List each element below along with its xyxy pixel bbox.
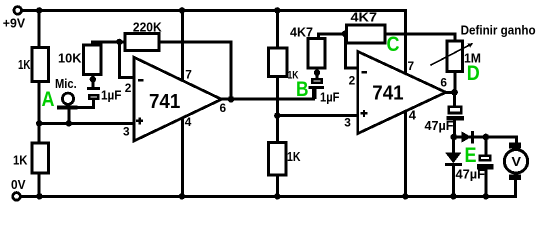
svg-text:741: 741 bbox=[149, 91, 180, 113]
junction U2 output node bbox=[451, 89, 458, 96]
svg-text:4: 4 bbox=[185, 115, 192, 129]
svg-text:A: A bbox=[42, 88, 55, 111]
svg-text:6: 6 bbox=[220, 101, 227, 115]
junction bottom rail left bbox=[36, 193, 42, 199]
wire voltmeter bottom lead bbox=[514, 178, 517, 198]
U1 inverting input minus bbox=[138, 79, 143, 82]
svg-text:0V: 0V bbox=[11, 177, 26, 192]
junction 4K7 to capacitor C2 bbox=[314, 70, 320, 76]
svg-text:Definir ganho: Definir ganho bbox=[461, 24, 536, 38]
junction bottom rail pin4 U1 bbox=[179, 193, 185, 199]
svg-text:1µF: 1µF bbox=[320, 89, 340, 104]
svg-text:1K: 1K bbox=[18, 57, 31, 72]
svg-text:Mic.: Mic. bbox=[55, 77, 77, 91]
svg-text:3: 3 bbox=[344, 115, 351, 129]
wire U2 output bbox=[446, 91, 455, 94]
svg-text:4K7: 4K7 bbox=[290, 24, 313, 39]
svg-text:7: 7 bbox=[185, 68, 192, 82]
junction pin7 U1 at rail bbox=[179, 7, 185, 13]
wire pot R9 bottom lead bbox=[453, 71, 456, 92]
wire left divider vertical bbox=[38, 10, 41, 196]
wire mic to capacitor C1 bbox=[68, 99, 93, 107]
wire 10K top lead to node bbox=[92, 42, 125, 46]
resistor R7 4K7 bbox=[308, 39, 325, 68]
junction node 220K left bbox=[116, 39, 122, 45]
diode D2 bbox=[445, 152, 462, 166]
resistor R2 1K bbox=[32, 143, 49, 173]
U2 non-inverting input plus bbox=[361, 110, 368, 117]
resistor R6 1K bbox=[269, 143, 286, 175]
resistor R5 1K bbox=[269, 48, 288, 76]
svg-text:4K7: 4K7 bbox=[351, 10, 378, 25]
junction mic to pin3 wire bbox=[66, 120, 72, 126]
wire pin7 U2 supply drop bbox=[404, 9, 407, 74]
wire pin3 U1 input bbox=[39, 122, 134, 125]
wire U1 output bbox=[222, 98, 315, 101]
junction rectifier right bbox=[482, 134, 489, 141]
svg-text:+9V: +9V bbox=[3, 17, 26, 31]
wire pin4 U2 ground drop bbox=[404, 112, 407, 197]
wire pin4 U1 ground drop bbox=[181, 118, 184, 197]
wire bottom 0V rail bbox=[21, 195, 516, 198]
svg-text:4: 4 bbox=[409, 108, 417, 123]
capacitor C4 47uF bbox=[477, 156, 494, 170]
junction 10K to capacitor C1 bbox=[90, 76, 96, 82]
diode D1 bbox=[462, 131, 474, 144]
svg-text:6: 6 bbox=[440, 76, 447, 90]
junction second divider at rail bbox=[274, 7, 280, 13]
wire 4K7 vertical top lead bbox=[318, 34, 347, 39]
U1 non-inverting input plus bbox=[136, 117, 143, 124]
junction bottom rail pin4 U2 bbox=[402, 193, 408, 199]
wire diode D2 cathode stem bbox=[452, 166, 455, 197]
svg-text:1K: 1K bbox=[13, 153, 28, 168]
svg-text:V: V bbox=[512, 154, 522, 169]
op-amp U1 bbox=[134, 57, 222, 141]
svg-text:741: 741 bbox=[372, 82, 403, 104]
resistor R4 220K bbox=[125, 34, 159, 51]
svg-text:E: E bbox=[465, 144, 477, 167]
svg-text:2: 2 bbox=[125, 81, 132, 95]
svg-text:47µF: 47µF bbox=[456, 166, 486, 181]
wire 10K bottom lead bbox=[91, 74, 94, 80]
wire node to pin2 U2 bbox=[345, 34, 358, 68]
junction bottom rail divider2 bbox=[274, 193, 280, 199]
svg-text:1µF: 1µF bbox=[101, 88, 122, 103]
resistor R8 4K7 bbox=[347, 25, 386, 43]
wire output node to capacitor C3 bbox=[453, 92, 456, 106]
junction bottom rail diode D2 bbox=[450, 193, 456, 199]
voltmeter M1 bbox=[504, 143, 527, 181]
wire capacitor C4 bottom stem bbox=[484, 169, 487, 197]
wire diode D2 anode stem bbox=[452, 137, 455, 153]
wire mic stem bbox=[67, 108, 70, 123]
wire voltmeter top lead bbox=[515, 136, 518, 147]
wire feedback 220K right lead bbox=[159, 42, 232, 99]
wire U1 output to capacitor C2 bbox=[313, 89, 315, 99]
svg-text:7: 7 bbox=[408, 59, 415, 73]
junction divider to pin3 U2 bbox=[274, 112, 280, 118]
wire 4K7 vertical bottom lead bbox=[316, 68, 319, 79]
U2 inverting input minus bbox=[362, 71, 367, 74]
potentiometer R9 1M bbox=[430, 41, 473, 72]
wire node to pin2 U1 bbox=[119, 42, 134, 78]
terminal 0V bbox=[13, 193, 21, 201]
junction U1 output node bbox=[228, 96, 235, 103]
junction bottom rail capacitor C4 bbox=[483, 193, 489, 199]
wire rectifier row bbox=[454, 136, 517, 139]
svg-text:2: 2 bbox=[349, 74, 356, 88]
svg-text:D: D bbox=[467, 62, 480, 85]
svg-text:3: 3 bbox=[123, 124, 130, 138]
wire pin7 U1 supply drop bbox=[181, 10, 184, 80]
wire capacitor C4 top stem bbox=[484, 137, 487, 155]
resistor R3 10K bbox=[84, 45, 101, 74]
svg-text:C: C bbox=[387, 33, 400, 56]
junction node 4K7 feedback left bbox=[342, 31, 348, 37]
wire second divider vertical bbox=[276, 10, 279, 196]
op-amp U2 bbox=[358, 52, 446, 134]
svg-text:47µF: 47µF bbox=[425, 118, 454, 133]
wire capacitor C1 top stem bbox=[91, 79, 94, 87]
terminal +9V bbox=[14, 7, 22, 15]
wire feedback 4K7 right lead to pot bbox=[385, 34, 455, 42]
capacitor C1 1uF bbox=[87, 87, 100, 99]
junction top left bbox=[36, 7, 42, 13]
svg-text:1K: 1K bbox=[287, 149, 301, 164]
junction rectifier left bbox=[450, 134, 457, 141]
junction divider to pin3 U1 bbox=[36, 120, 42, 126]
svg-text:220K: 220K bbox=[133, 19, 162, 34]
wire capacitor C3 bottom stem bbox=[453, 120, 456, 137]
wire pin3 U2 input bbox=[277, 114, 358, 117]
resistor R1 1K bbox=[32, 48, 49, 82]
microphone MIC bbox=[57, 93, 77, 109]
svg-text:B: B bbox=[296, 78, 309, 101]
svg-text:10K: 10K bbox=[58, 51, 82, 66]
capacitor C2 1uF bbox=[309, 79, 325, 99]
capacitor C3 47uF bbox=[446, 107, 464, 121]
wire top +9V rail bbox=[22, 9, 408, 12]
